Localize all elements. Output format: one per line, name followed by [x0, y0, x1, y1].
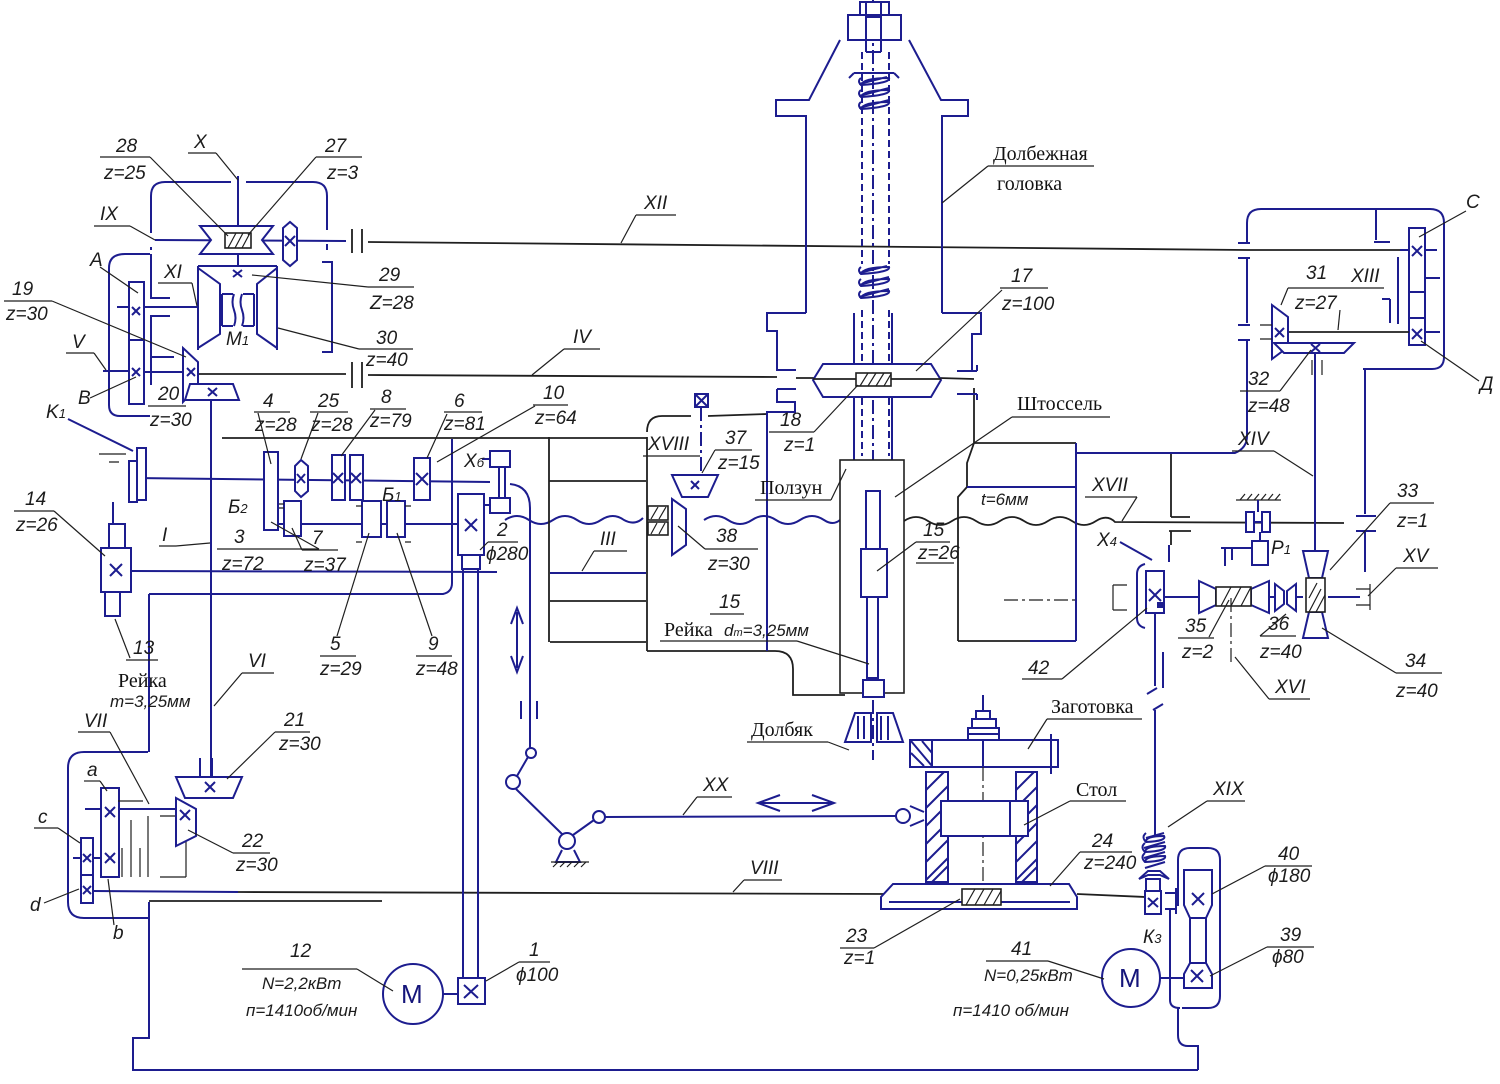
label 31 z=27: [1281, 263, 1384, 330]
column rib 2: [550, 600, 646, 602]
label XIV: [1232, 429, 1313, 476]
shaft VI foot: [200, 758, 212, 776]
svg-text:z=25: z=25: [103, 163, 146, 184]
svg-text:18: 18: [780, 410, 802, 431]
feed shaft XV: [1164, 596, 1360, 598]
label 18 z=1: [769, 385, 858, 456]
bevel 19: [183, 348, 198, 402]
bearing right of 17: [957, 365, 977, 400]
svg-text:Z=28: Z=28: [369, 293, 414, 314]
svg-text:XIX: XIX: [1212, 779, 1245, 800]
svg-text:z=72: z=72: [221, 554, 264, 575]
svg-text:8: 8: [381, 387, 392, 408]
svg-text:Рейка: Рейка: [118, 670, 167, 692]
gear block C-D: [1400, 228, 1440, 345]
bearing left of 17: [777, 364, 796, 395]
rack block 15: [861, 549, 887, 597]
shaft VIII to K3: [1077, 894, 1145, 897]
housing XIII: [1076, 209, 1444, 453]
svg-text:5: 5: [330, 634, 341, 655]
svg-text:9: 9: [428, 634, 439, 655]
screw hidden lines: [862, 52, 889, 456]
label XII: [621, 193, 676, 243]
pulley 40: [1184, 870, 1212, 918]
shaft c stub: [73, 857, 101, 859]
svg-text:M1: M1: [226, 329, 249, 350]
worm 18 hatched: [856, 373, 891, 386]
shaft IX: [155, 240, 346, 241]
svg-text:п=1410об/мин: п=1410об/мин: [246, 1001, 358, 1020]
svg-text:1: 1: [529, 940, 540, 961]
svg-text:13: 13: [133, 638, 155, 659]
housing right wall down: [1364, 369, 1366, 572]
shaft VIII right: [238, 892, 889, 894]
label 28 z=25: [100, 136, 228, 236]
shaft VI: [210, 400, 212, 776]
svg-text:z=30: z=30: [149, 410, 192, 431]
svg-text:VIII: VIII: [750, 858, 779, 879]
housing V: [109, 254, 174, 416]
label 12 motor: [242, 941, 393, 1020]
table screw axis: [982, 767, 984, 884]
tension arrow: [511, 608, 523, 672]
svg-text:п=1410 об/мин: п=1410 об/мин: [953, 1001, 1070, 1020]
housing bottom line: [149, 439, 452, 594]
bearing marks housing: [1238, 243, 1376, 531]
svg-text:2: 2: [496, 520, 508, 541]
shaft V stub: [103, 307, 183, 372]
svg-text:24: 24: [1091, 831, 1113, 852]
bevel 20: [185, 384, 239, 400]
label XV: [1368, 546, 1438, 596]
label 27 z=3: [248, 136, 362, 235]
svg-text:K1: K1: [46, 402, 66, 423]
label 24 z=240: [1050, 831, 1137, 886]
label B: [78, 377, 136, 409]
svg-text:z=30: z=30: [707, 554, 750, 575]
worm 38 hatched: [648, 506, 668, 535]
svg-text:C: C: [1466, 192, 1480, 213]
svg-text:z=1: z=1: [843, 948, 875, 969]
gear on shaft XVIII: [695, 394, 708, 407]
svg-text:XII: XII: [643, 193, 668, 214]
column rib blue: [550, 572, 646, 574]
belt to pulley 1: [463, 569, 478, 978]
svg-text:40: 40: [1278, 844, 1300, 865]
frame pedestal right: [1178, 1008, 1198, 1070]
label 1 f100: [486, 940, 559, 986]
svg-text:b: b: [113, 923, 124, 944]
gear 8: [332, 455, 345, 500]
label Shtossel: [895, 393, 1110, 497]
svg-text:Долбяк: Долбяк: [751, 719, 813, 741]
worm gear 28: [200, 226, 273, 254]
label 6 z=81: [427, 391, 486, 458]
svg-text:головка: головка: [997, 173, 1062, 195]
label Zagotovka: [1028, 696, 1142, 749]
gear K3: [1145, 891, 1161, 914]
shaft IV through head: [796, 378, 974, 379]
bevel 21: [176, 777, 242, 798]
label Dolbyak: [747, 719, 849, 750]
gear 36: [1275, 584, 1296, 611]
hanger web blue: [1168, 545, 1170, 562]
svg-text:c: c: [38, 807, 48, 828]
housing IX: [151, 182, 327, 250]
svg-text:IX: IX: [100, 204, 119, 225]
svg-text:z=28: z=28: [254, 415, 297, 436]
svg-text:XX: XX: [702, 775, 730, 796]
table column right: [1016, 772, 1037, 882]
linkage guide: [521, 701, 537, 719]
table clamp box: [941, 801, 1028, 836]
label XI: [158, 262, 197, 306]
shaft collar: [1146, 879, 1160, 891]
svg-text:I: I: [162, 525, 168, 546]
svg-text:42: 42: [1028, 658, 1050, 679]
svg-text:38: 38: [716, 526, 738, 547]
svg-text:Штоссель: Штоссель: [1017, 393, 1102, 415]
bearing shaft IV: [352, 362, 362, 388]
bearing K3: [1165, 888, 1176, 914]
svg-text:z=100: z=100: [1001, 294, 1055, 315]
svg-text:Ползун: Ползун: [760, 477, 823, 499]
label 21 z=30: [227, 710, 321, 779]
worm 23 hatched: [962, 889, 1001, 905]
svg-text:6: 6: [454, 391, 465, 412]
bracket 42: [1137, 564, 1145, 628]
label 35 z=2: [1178, 600, 1229, 663]
svg-text:Долбежная: Долбежная: [993, 143, 1088, 165]
svg-text:z=40: z=40: [365, 350, 408, 371]
M1 housing bracket: [322, 262, 332, 352]
slider rod: [510, 484, 530, 748]
rod break marks: [1147, 688, 1163, 710]
svg-text:z=1: z=1: [1396, 511, 1428, 532]
ratchet support: [1257, 500, 1259, 512]
svg-text:20: 20: [157, 384, 180, 405]
svg-text:Д: Д: [1478, 374, 1493, 395]
rod XX: [605, 816, 896, 817]
table pin joint: [896, 806, 924, 826]
label XVII: [1085, 475, 1137, 521]
screw top: [866, 2, 881, 52]
label 14 z=26: [14, 489, 105, 556]
frame top edge: [149, 900, 382, 902]
shaft II: [278, 523, 459, 525]
svg-text:23: 23: [845, 926, 868, 947]
bevel 32: [1274, 343, 1354, 353]
arrow XX: [758, 795, 834, 811]
svg-text:7: 7: [312, 528, 324, 549]
spring lower: [859, 266, 889, 298]
gear 6: [414, 458, 430, 500]
clutch B1 marks: [356, 506, 411, 542]
label XVIII: [643, 434, 700, 456]
label XIX: [1168, 779, 1245, 827]
svg-text:25: 25: [317, 391, 340, 412]
gear 27 hexagon: [283, 222, 297, 266]
head cap top: [860, 2, 889, 15]
column left wall: [548, 437, 550, 642]
shaft XI: [144, 306, 198, 308]
head centerline: [872, 0, 874, 713]
label 32 z=48: [1240, 350, 1311, 417]
label 10 z=64: [437, 383, 577, 462]
svg-text:Б1: Б1: [382, 485, 402, 506]
shaft I: [134, 478, 490, 482]
label IX: [94, 204, 155, 240]
shaft IV left: [198, 373, 346, 375]
label 30 z=40: [278, 328, 413, 371]
svg-text:z=26: z=26: [917, 543, 960, 564]
belt housing: [1178, 848, 1220, 1008]
clutch marks shaft VII: [118, 801, 148, 877]
svg-text:ϕ100: ϕ100: [516, 965, 559, 986]
svg-text:ϕ80: ϕ80: [1272, 947, 1304, 968]
gear 5: [362, 501, 381, 537]
svg-text:36: 36: [1268, 614, 1290, 635]
svg-text:z=1: z=1: [783, 435, 815, 456]
label b: [108, 879, 124, 944]
shaft X: [237, 176, 239, 266]
gears c d: [81, 838, 93, 903]
shaft IV through wheel: [813, 378, 941, 380]
label 34 z=40: [1322, 628, 1442, 702]
cutter holder: [863, 680, 884, 697]
label XX: [683, 775, 732, 815]
worm 35: [1199, 581, 1269, 613]
svg-text:41: 41: [1011, 939, 1032, 960]
svg-text:21: 21: [283, 710, 305, 731]
label Stol: [1024, 779, 1126, 825]
svg-text:27: 27: [324, 136, 348, 157]
wavy line III: [505, 516, 643, 524]
svg-text:39: 39: [1280, 925, 1302, 946]
svg-text:12: 12: [290, 941, 312, 962]
svg-text:19: 19: [12, 279, 34, 300]
gear 9: [387, 501, 405, 537]
label 42: [1022, 608, 1147, 679]
head base right: [942, 313, 981, 370]
label VI: [214, 651, 274, 706]
svg-text:37: 37: [725, 428, 748, 449]
screw nut 15: [866, 491, 880, 549]
label 37 z=15: [702, 428, 760, 474]
label III: [582, 529, 627, 571]
svg-text:XV: XV: [1402, 546, 1431, 567]
label head: [942, 143, 1094, 203]
clutch M1: [198, 266, 277, 350]
label Rejka 14: [110, 670, 191, 711]
shaft XII in box: [1247, 249, 1409, 251]
svg-text:XVII: XVII: [1091, 475, 1129, 496]
shaft XII: [368, 242, 1247, 250]
svg-text:Р1: Р1: [1271, 538, 1291, 559]
label X: [188, 132, 238, 180]
svg-text:Стол: Стол: [1076, 779, 1117, 801]
svg-text:t=6мм: t=6мм: [981, 490, 1029, 509]
label 2 f280: [480, 520, 529, 565]
pulley 39: [1184, 963, 1212, 988]
svg-text:a: a: [87, 760, 98, 781]
K1 leader: [68, 419, 133, 451]
rocker pivot: [559, 833, 575, 849]
label 3 z=72: [217, 522, 319, 575]
svg-text:z=48: z=48: [415, 659, 458, 680]
motor 12: [383, 964, 458, 1024]
gear block 4/3: [264, 452, 278, 530]
svg-text:14: 14: [25, 489, 46, 510]
label 9 z=48: [397, 533, 458, 680]
bearing XV left: [1113, 585, 1127, 610]
svg-text:28: 28: [115, 136, 138, 157]
svg-text:z=48: z=48: [1247, 396, 1290, 417]
svg-text:Рейка: Рейка: [664, 619, 713, 641]
svg-text:XIV: XIV: [1237, 429, 1271, 450]
pawl P1: [1221, 532, 1268, 566]
label 17 z=100: [916, 266, 1055, 371]
shaft of gear 14: [131, 571, 497, 572]
label 7 z=37: [292, 528, 347, 576]
label IV: [532, 327, 600, 375]
svg-text:z=81: z=81: [443, 414, 486, 435]
svg-text:z=27: z=27: [1294, 293, 1338, 314]
svg-text:IV: IV: [573, 327, 593, 348]
label I: [159, 525, 210, 546]
bevel 31: [1260, 305, 1288, 359]
svg-text:z=40: z=40: [1395, 681, 1438, 702]
label 15 rack: [660, 592, 869, 664]
label d: [30, 889, 79, 916]
svg-text:Хб: Хб: [463, 451, 485, 472]
label Polzun: [755, 469, 846, 500]
svg-text:3: 3: [234, 527, 245, 548]
svg-text:15: 15: [923, 520, 945, 541]
head trapezoid: [776, 40, 968, 313]
support web: [1374, 210, 1398, 324]
motor 41: [1102, 949, 1184, 1007]
bearing shaft IX/XII: [352, 229, 362, 253]
svg-text:m=3,25мм: m=3,25мм: [110, 692, 191, 711]
svg-text:VII: VII: [84, 711, 108, 732]
label V: [66, 332, 106, 370]
svg-text:XVI: XVI: [1274, 677, 1306, 698]
label 8 z=79: [341, 387, 412, 456]
bearing XV right: [1356, 584, 1370, 610]
hanger web: [1169, 454, 1191, 545]
svg-text:X: X: [193, 132, 208, 153]
svg-text:z=30: z=30: [278, 734, 321, 755]
svg-text:29: 29: [378, 265, 401, 286]
svg-text:32: 32: [1248, 369, 1270, 390]
housing outline to ram: [647, 651, 845, 695]
svg-text:4: 4: [263, 391, 274, 412]
svg-text:15: 15: [719, 592, 741, 613]
feed axis dashdot: [1004, 599, 1076, 601]
label 5 z=29: [319, 533, 369, 680]
rack housing right: [1030, 443, 1076, 641]
clutch K1: [99, 448, 146, 502]
svg-text:Заготовка: Заготовка: [1051, 696, 1134, 718]
label 13: [115, 619, 158, 660]
bearing bracket: [160, 816, 186, 877]
bevel 22: [176, 798, 196, 846]
svg-text:z=26: z=26: [15, 515, 58, 536]
bearing under 32: [1312, 360, 1322, 375]
svg-text:VI: VI: [248, 651, 267, 672]
svg-text:z=3: z=3: [326, 163, 359, 184]
gear a: [101, 788, 119, 877]
svg-text:d: d: [30, 895, 42, 916]
clamp stud: [968, 695, 999, 767]
label 25 z=28: [301, 391, 353, 459]
shaft XVIII axis: [700, 407, 702, 500]
label 29 Z=28: [252, 265, 414, 314]
shaft XIII: [1288, 331, 1409, 333]
wavy line III right: [704, 516, 840, 524]
column right wall: [646, 437, 648, 651]
label 38 z=30: [678, 526, 758, 575]
svg-text:XVIII: XVIII: [647, 434, 690, 455]
feed rod vertical: [1155, 613, 1163, 836]
label 41 motor: [953, 939, 1104, 1020]
label 19 z=30: [4, 279, 186, 357]
machine frame outline: [133, 902, 1198, 1070]
crank circle a: [526, 748, 536, 758]
svg-text:z=240: z=240: [1083, 853, 1137, 874]
label 15 z=26: [877, 520, 960, 571]
svg-text:z=37: z=37: [303, 555, 347, 576]
bevel 37: [672, 475, 718, 497]
svg-text:z=29: z=29: [319, 659, 362, 680]
gear block shaft V: [129, 282, 144, 404]
svg-text:Б2: Б2: [228, 497, 248, 518]
worm axis XVI: [1230, 598, 1232, 662]
svg-text:22: 22: [241, 831, 264, 852]
label D: [1421, 341, 1493, 395]
link rods: [516, 757, 594, 835]
svg-text:B: B: [78, 388, 91, 409]
bevel XIX: [1139, 871, 1169, 879]
label 23 z=1: [840, 899, 960, 969]
label X4: [1096, 530, 1152, 560]
clutch X6: [482, 451, 510, 513]
table column left: [926, 772, 948, 882]
label 39 f80: [1210, 925, 1314, 976]
joint circle XX: [593, 811, 605, 823]
svg-text:30: 30: [376, 328, 398, 349]
column bottom: [550, 641, 646, 643]
label c: [34, 807, 80, 843]
svg-text:N=0,25кВт: N=0,25кВт: [984, 966, 1073, 985]
label 36 z=40: [1259, 614, 1302, 663]
spring upper: [849, 73, 899, 109]
gear 10: [350, 455, 363, 500]
label VII: [78, 711, 149, 804]
svg-text:N=2,2кВт: N=2,2кВт: [262, 974, 341, 993]
pulley 2: [458, 494, 484, 569]
shaft XIV: [1314, 353, 1316, 551]
label A: [89, 250, 138, 293]
label C: [1419, 192, 1480, 237]
svg-text:M: M: [401, 979, 423, 1009]
svg-text:z=40: z=40: [1259, 642, 1302, 663]
label VIII: [733, 858, 782, 892]
svg-text:XIII: XIII: [1350, 266, 1380, 287]
bevel 42: [1146, 571, 1164, 613]
spring XIX: [1143, 833, 1166, 868]
